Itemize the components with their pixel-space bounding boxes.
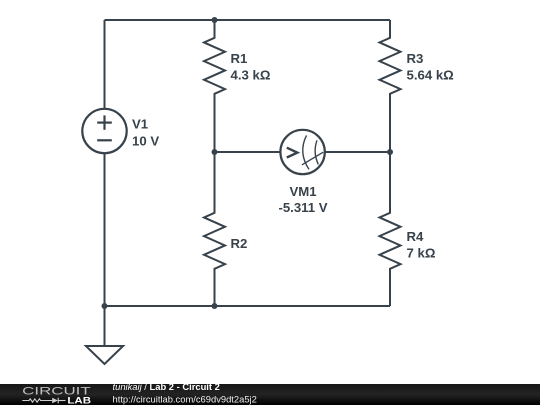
- svg-text:R1: R1: [231, 51, 248, 66]
- svg-text:R4: R4: [407, 229, 425, 244]
- svg-text:V1: V1: [132, 117, 148, 132]
- svg-text:R2: R2: [231, 236, 248, 251]
- svg-text:tunikaij / Lab 2 - Circuit 2: tunikaij / Lab 2 - Circuit 2: [113, 381, 220, 392]
- svg-text:7 kΩ: 7 kΩ: [407, 246, 436, 261]
- svg-text:10 V: 10 V: [132, 133, 159, 148]
- svg-text:LAB: LAB: [67, 395, 91, 405]
- svg-text:http://circuitlab.com/c69dv9dt: http://circuitlab.com/c69dv9dt2a5j2: [113, 393, 257, 404]
- svg-text:5.64 kΩ: 5.64 kΩ: [407, 68, 455, 83]
- svg-text:VM1: VM1: [289, 184, 316, 199]
- svg-text:-5.311 V: -5.311 V: [278, 200, 327, 215]
- svg-text:R3: R3: [407, 51, 424, 66]
- svg-text:4.3 kΩ: 4.3 kΩ: [231, 68, 271, 83]
